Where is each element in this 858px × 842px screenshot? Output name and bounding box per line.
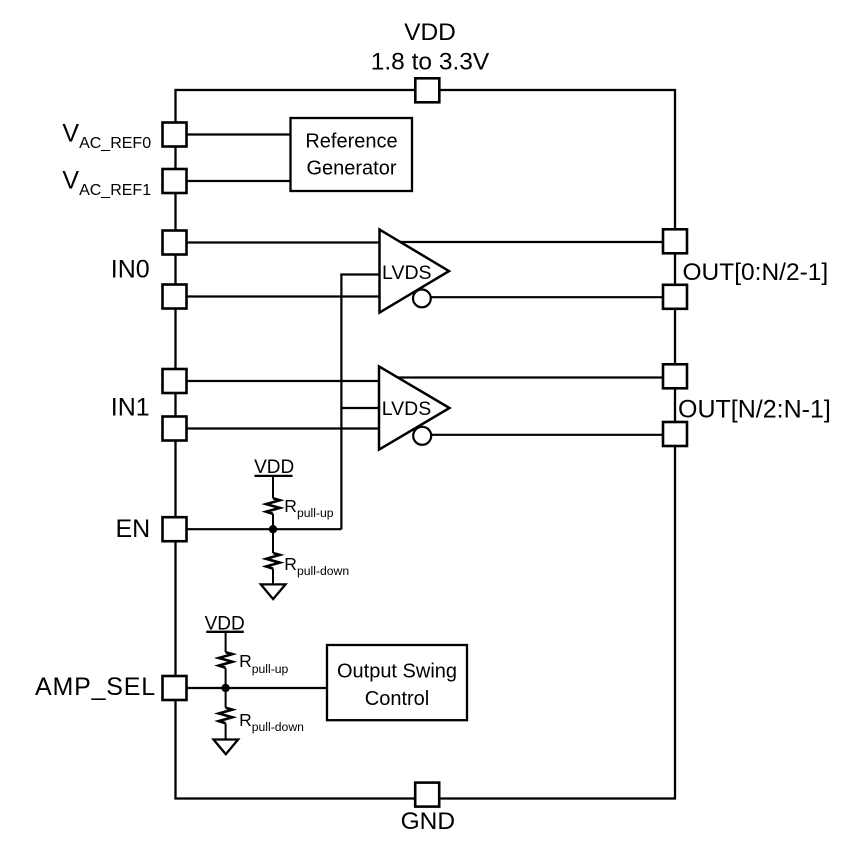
svg-text:VDD: VDD	[404, 19, 456, 46]
svg-text:Reference: Reference	[305, 131, 397, 153]
svg-text:VDD: VDD	[205, 614, 245, 635]
svg-text:OUT[N/2:N-1]: OUT[N/2:N-1]	[678, 396, 831, 424]
svg-text:Output Swing: Output Swing	[337, 661, 457, 683]
svg-text:OUT[0:N/2-1]: OUT[0:N/2-1]	[683, 259, 829, 286]
svg-text:GND: GND	[401, 808, 455, 835]
svg-text:Control: Control	[365, 688, 429, 710]
svg-text:Generator: Generator	[306, 158, 396, 180]
svg-text:EN: EN	[116, 515, 151, 543]
svg-text:IN1: IN1	[111, 394, 150, 422]
svg-text:IN0: IN0	[111, 256, 150, 284]
svg-text:AMP_SEL: AMP_SEL	[35, 673, 156, 701]
svg-text:1.8 to 3.3V: 1.8 to 3.3V	[371, 49, 490, 76]
svg-text:LVDS: LVDS	[382, 262, 432, 284]
svg-text:LVDS: LVDS	[382, 398, 432, 420]
svg-text:VDD: VDD	[254, 457, 294, 478]
